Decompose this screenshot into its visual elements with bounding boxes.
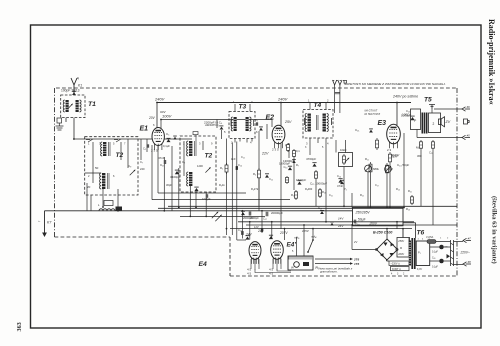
svg-text:2V: 2V xyxy=(353,240,357,244)
wire riser x158 below E1 xyxy=(157,146,159,193)
svg-text:E4′: E4′ xyxy=(287,242,297,249)
svg-text:⌙: ⌙ xyxy=(38,219,41,223)
coil box T2 dashed xyxy=(85,137,138,195)
svg-text:M₁: M₁ xyxy=(416,146,420,150)
svg-text:R₁₂: R₁₂ xyxy=(360,193,364,197)
wire E2 screen link xyxy=(271,120,273,128)
voltage selector xyxy=(451,240,454,266)
T4 top leads xyxy=(310,103,326,110)
svg-text:90V: 90V xyxy=(160,110,166,114)
svg-text:0,1μF: 0,1μF xyxy=(432,267,439,269)
T1 primary winding xyxy=(66,100,69,112)
ground hatch below R1 xyxy=(56,126,64,130)
wire riser x152 xyxy=(151,145,153,200)
T1 secondary winding xyxy=(76,100,79,112)
svg-text:240V: 240V xyxy=(277,97,288,102)
svg-text:Radio-prijemnik »Iskra«: Radio-prijemnik »Iskra« xyxy=(487,19,496,105)
wire bus y221 xyxy=(238,221,414,223)
svg-text:C₂: C₂ xyxy=(143,147,146,151)
svg-text:#6: #6 xyxy=(467,105,471,109)
T3 right winding xyxy=(246,117,249,131)
wire E3 anode to T5 xyxy=(396,103,398,126)
connector K7 mains xyxy=(463,236,471,242)
potentiometer P3 xyxy=(385,166,392,173)
resistor under T5 b xyxy=(432,140,435,150)
wire x236 riser xyxy=(236,142,238,234)
resistor R9 xyxy=(315,170,318,180)
svg-text:100pF 30/13: 100pF 30/13 xyxy=(61,89,80,93)
wire T2 lower row xyxy=(85,172,101,174)
bridge rectifier B250 C100 xyxy=(377,239,398,260)
svg-text:E2: E2 xyxy=(266,115,275,122)
mains label box 2 xyxy=(391,267,410,271)
capacitor above E4b xyxy=(261,228,262,232)
wire riser x294 xyxy=(293,158,295,190)
svg-text:12V: 12V xyxy=(254,225,259,229)
svg-text:AM/FM½C₃: AM/FM½C₃ xyxy=(204,123,220,127)
wire bus y228 xyxy=(230,228,412,230)
fuse V1 xyxy=(427,240,436,244)
switch lever xyxy=(308,240,313,252)
wire riser x259b xyxy=(258,180,260,206)
svg-text:C₁₅ 10000pF: C₁₅ 10000pF xyxy=(310,182,327,186)
svg-text:250/285V: 250/285V xyxy=(355,211,371,215)
wire riser x387mid xyxy=(386,175,388,208)
mains label box 1 xyxy=(389,261,409,265)
connector K5 xyxy=(462,133,470,139)
wire T2' riser xyxy=(195,192,197,208)
svg-text:R₁₆: R₁₆ xyxy=(322,190,326,194)
svg-text:E1: E1 xyxy=(140,126,149,133)
wire E4 grid link xyxy=(237,239,246,241)
capacitor 100pF osc xyxy=(206,194,207,198)
wire C18 box out right xyxy=(403,222,416,224)
rectifier output box xyxy=(397,238,409,258)
svg-text:0,1μF: 0,1μF xyxy=(163,144,170,148)
svg-text:C₁₇: C₁₇ xyxy=(263,217,267,221)
svg-text:1000pF: 1000pF xyxy=(401,114,411,118)
svg-text:C₁₉: C₁₉ xyxy=(318,206,322,210)
wire riser x397 bottom xyxy=(396,222,398,229)
svg-text:20V: 20V xyxy=(148,116,156,120)
wire riser x271 xyxy=(271,222,273,239)
svg-text:C₂₄ 50pF: C₂₄ 50pF xyxy=(397,163,409,167)
capacitor at x289 xyxy=(292,160,296,163)
ferrite blob xyxy=(116,207,123,212)
wire x206 riser xyxy=(205,192,207,216)
svg-text:50μF: 50μF xyxy=(358,218,366,222)
inductor L1 on bus xyxy=(99,209,115,211)
svg-text:0,1μF: 0,1μF xyxy=(432,252,439,254)
svg-text:1200: 1200 xyxy=(197,164,203,168)
resistor R5 mid xyxy=(225,163,228,174)
trimmer gang arrows on bus xyxy=(212,212,218,218)
resistor R12 xyxy=(386,163,389,175)
connector K6 xyxy=(462,105,470,111)
band switch contact right xyxy=(114,139,121,142)
svg-text:R₁₅: R₁₅ xyxy=(408,189,412,193)
wire T2 internal links xyxy=(93,139,128,183)
wire riser x345 top xyxy=(345,140,347,153)
capacitor C18 bars xyxy=(354,220,356,224)
svg-text:C₁₀: C₁₀ xyxy=(284,165,288,169)
svg-text:240V: 240V xyxy=(154,97,165,102)
wire riser x352 xyxy=(351,193,353,208)
wire E4 cathodes to box xyxy=(255,269,291,273)
tube E1 xyxy=(152,128,164,151)
wire riser x147 xyxy=(146,139,148,152)
svg-text:220V~: 220V~ xyxy=(460,251,470,255)
svg-text:207V: 207V xyxy=(279,231,288,235)
IF transformer T4 box xyxy=(303,110,333,139)
svg-text:ZV: ZV xyxy=(445,120,451,124)
wire riser x404 xyxy=(403,133,405,208)
chassis boundary dashed step xyxy=(229,237,231,276)
wire riser x221 xyxy=(221,130,223,139)
wire E4a leads xyxy=(251,259,259,270)
T4 right winding xyxy=(323,114,326,132)
svg-text:2 3: 2 3 xyxy=(387,148,392,152)
resistor R7 xyxy=(293,149,296,158)
svg-text:mk₄: mk₄ xyxy=(311,235,317,239)
tube E2 xyxy=(272,125,285,148)
svg-text:680k: 680k xyxy=(373,167,379,171)
capacitor C14 xyxy=(236,166,237,170)
capacitor C2 at E1 grid xyxy=(147,144,148,147)
svg-text:R₃1k: R₃1k xyxy=(219,183,225,187)
T4 side caps xyxy=(305,118,332,125)
svg-text:24V: 24V xyxy=(337,224,344,228)
wire 240V anode bus xyxy=(157,102,411,104)
svg-text:115V: 115V xyxy=(302,229,310,233)
T2 upper winding core xyxy=(108,142,110,156)
svg-text:C₂₆: C₂₆ xyxy=(432,258,436,260)
resistor R6 under E2 xyxy=(287,143,290,152)
wire grid bus extension xyxy=(164,138,192,140)
dipole feeder wires xyxy=(335,85,340,113)
earth arrow K7 xyxy=(42,218,47,237)
trimmer in T2' xyxy=(205,167,210,172)
wire speaker return xyxy=(417,137,462,139)
capacitor C12 xyxy=(265,174,269,178)
antenna A xyxy=(71,78,77,95)
wire x226 riser xyxy=(226,139,228,236)
wire bridge left xyxy=(352,249,377,251)
svg-text:C₁₂: C₁₂ xyxy=(241,155,245,159)
grid caps at E4 xyxy=(245,236,249,240)
svg-text:1T6: 1T6 xyxy=(354,262,360,266)
svg-text:B-250 C100: B-250 C100 xyxy=(373,231,392,235)
svg-text:C₇: C₇ xyxy=(140,160,143,164)
wire bridge right to T6 xyxy=(396,249,399,251)
svg-text:T4: T4 xyxy=(314,102,322,109)
wire long AVC bus xyxy=(45,210,353,212)
svg-text:mk₅: mk₅ xyxy=(294,236,300,240)
capacitor C19 xyxy=(320,210,324,214)
T6 primary winding xyxy=(409,241,411,266)
svg-text:C₂₂: C₂₂ xyxy=(429,151,433,155)
wire bridge top riser xyxy=(386,229,388,239)
svg-text:4 5: 4 5 xyxy=(269,272,274,276)
svg-text:#5: #5 xyxy=(467,133,471,137)
resistor under T5 xyxy=(420,140,423,150)
capacitor C5 at E1 xyxy=(167,138,171,142)
svg-text:10000pF: 10000pF xyxy=(279,162,290,166)
wire riser x313 switch xyxy=(312,229,314,240)
svg-text:200V: 200V xyxy=(369,222,378,226)
resistor R4 mid xyxy=(258,168,261,180)
connector K8 mains xyxy=(463,260,471,266)
wire bus y208 xyxy=(158,207,403,209)
wire bus y193 xyxy=(158,192,246,194)
wire riser x326 xyxy=(325,142,327,222)
wire input bus to E1 xyxy=(73,138,152,140)
wire riser x336 volume xyxy=(335,140,337,153)
wire riser x262 xyxy=(261,211,263,233)
wire riser x249 xyxy=(249,222,251,240)
T3 trim caps xyxy=(231,120,254,126)
wire x232 riser xyxy=(231,143,233,236)
wire T2 riser x91 xyxy=(90,195,92,211)
arrow mark on P2 xyxy=(365,166,371,172)
svg-text:P₁: P₁ xyxy=(418,251,421,255)
svg-text:R₁₄: R₁₄ xyxy=(396,187,400,191)
arrow to 2T6 xyxy=(315,258,350,260)
arrow mark on P3 xyxy=(385,166,391,172)
svg-text:6,3V: 6,3V xyxy=(417,268,422,271)
svg-text:R₄: R₄ xyxy=(253,172,256,176)
T1 tuning arrows xyxy=(68,104,72,108)
indicator lamp 1 xyxy=(439,245,444,250)
wire T3 top leads xyxy=(235,104,250,112)
svg-text:2 3 5: 2 3 5 xyxy=(272,148,279,152)
wire riser x421 xyxy=(420,150,422,206)
chassis boundary dashed bottom right xyxy=(230,275,457,277)
wire 100V drop to E1 xyxy=(160,120,162,129)
svg-text:R₁₀: R₁₀ xyxy=(291,193,295,197)
svg-text:C₁₇: C₁₇ xyxy=(375,183,379,187)
dipole crossbar xyxy=(335,93,340,94)
svg-text:C₂₃: C₂₃ xyxy=(406,109,410,113)
svg-text:E4: E4 xyxy=(199,261,208,268)
T4 core lines xyxy=(316,115,318,130)
T5 core xyxy=(422,113,428,134)
capacitor C17 20000uF xyxy=(266,212,268,217)
svg-text:0,1: 0,1 xyxy=(296,149,300,153)
wire riser x242 xyxy=(241,211,243,239)
wire x178 riser xyxy=(178,168,180,208)
wire bus y225 xyxy=(246,224,457,226)
svg-text:110V: 110V xyxy=(391,154,400,158)
wire riser x259 xyxy=(258,131,260,211)
T6 core xyxy=(411,238,413,269)
svg-text:DI TECH NTZ: DI TECH NTZ xyxy=(365,113,381,116)
capacitor 3400pF xyxy=(175,170,179,174)
svg-text:4700pF: 4700pF xyxy=(306,157,316,161)
wire T2' links xyxy=(184,141,203,176)
svg-text:363: 363 xyxy=(16,322,23,331)
diode mark right xyxy=(447,254,451,259)
resistor R8 xyxy=(286,176,289,184)
wire selector links xyxy=(430,242,463,265)
svg-text:M: M xyxy=(400,247,402,250)
bridge vertex circles xyxy=(375,248,377,250)
svg-text:2: 2 xyxy=(433,122,435,126)
FM dipole antenna xyxy=(333,80,343,85)
wire bridge bottom xyxy=(386,259,388,261)
chassis boundary dashed bottom left xyxy=(55,236,231,238)
T3 left winding xyxy=(234,117,237,131)
resistor bleeder xyxy=(411,195,414,205)
svg-text:R₁₁: R₁₁ xyxy=(365,157,369,161)
wire riser x236 to E4 xyxy=(236,233,238,240)
page frame border xyxy=(31,25,482,328)
svg-text:T5: T5 xyxy=(424,97,432,104)
svg-text:V₁Q5A: V₁Q5A xyxy=(426,236,434,239)
svg-text:R₁₃: R₁₃ xyxy=(406,207,410,211)
capacitor below T2' winding xyxy=(194,187,198,191)
trimmer C9 xyxy=(130,170,136,176)
wire T2 riser x87 xyxy=(86,183,88,211)
arrow to 1T6 xyxy=(315,263,350,265)
svg-text:T1: T1 xyxy=(88,101,96,108)
svg-text:E3: E3 xyxy=(378,120,387,127)
svg-text:W: W xyxy=(291,266,294,270)
svg-text:1500pF: 1500pF xyxy=(296,178,306,182)
dipole mark xyxy=(344,81,347,84)
T4 left winding xyxy=(308,114,311,132)
wire riser x289 top xyxy=(288,143,290,158)
svg-text:K1: K1 xyxy=(78,84,82,88)
svg-text:C₁₆: C₁₆ xyxy=(337,174,341,178)
wire riser x310 xyxy=(309,142,311,155)
wire riser x345 xyxy=(343,167,345,207)
indicator lamp 2 xyxy=(439,259,444,264)
IF transformer T3 box xyxy=(229,112,255,139)
component box above L1 xyxy=(104,201,113,206)
transformer T1 box xyxy=(61,95,85,118)
wire riser x190 xyxy=(189,186,191,216)
capacitor C13 47nF xyxy=(164,160,165,164)
svg-text:R₄27k: R₄27k xyxy=(251,187,259,191)
wire riser x281 down xyxy=(280,144,282,229)
capacitor 4700pF xyxy=(312,163,316,167)
wire riser x433 xyxy=(432,150,434,225)
svg-text:20000μF: 20000μF xyxy=(271,211,283,215)
resistor R E3 cathode xyxy=(389,152,392,164)
wire riser x284 xyxy=(284,229,286,240)
small resistor above osc xyxy=(193,132,198,135)
svg-text:240: 240 xyxy=(140,167,145,171)
T2 upper winding xyxy=(103,142,106,156)
wire riser x296 switch xyxy=(296,237,298,256)
wire T5 to connector 6 xyxy=(434,108,462,110)
svg-text:200V: 200V xyxy=(397,253,404,256)
svg-text:2T6: 2T6 xyxy=(353,258,360,262)
capacitor 2000pF left xyxy=(249,212,251,216)
chassis boundary dash-dot left xyxy=(54,88,56,237)
capacitor 2200pF xyxy=(220,126,224,130)
tube E3 xyxy=(387,124,401,148)
svg-text:250V: 250V xyxy=(397,240,404,243)
T5 secondary box xyxy=(429,113,441,133)
wire rect box top xyxy=(409,237,411,241)
T3 pin leads xyxy=(235,139,252,143)
svg-text:T2: T2 xyxy=(116,152,124,159)
wire E1 anode riser xyxy=(156,103,158,129)
svg-text:P₂: P₂ xyxy=(344,187,347,191)
svg-text:#7: #7 xyxy=(468,236,472,240)
svg-text:C₂₀: C₂₀ xyxy=(238,228,242,232)
svg-text:gramofonom.: gramofonom. xyxy=(320,270,338,274)
T2 lower winding core xyxy=(107,173,109,189)
T4 bottom leads xyxy=(310,138,326,143)
wire bus y216 xyxy=(180,215,265,217)
svg-text:R₉300: R₉300 xyxy=(305,187,313,191)
wire T1 to tuner xyxy=(73,118,75,139)
T5 primary box xyxy=(411,109,421,130)
wire x164 riser xyxy=(163,157,165,211)
volume potentiometer box xyxy=(339,153,353,167)
wire riser x141 xyxy=(140,139,142,160)
terminal box P xyxy=(288,256,313,270)
wire riser x304 xyxy=(303,225,305,256)
wire bus y206 xyxy=(168,205,457,207)
wire E4b leads xyxy=(273,259,281,270)
capacitor C6 at E1 xyxy=(173,136,177,139)
svg-text:A: A xyxy=(76,77,80,81)
svg-text:C₀: C₀ xyxy=(255,118,258,122)
svg-text:4 5: 4 5 xyxy=(247,272,252,276)
svg-text:T3: T3 xyxy=(239,104,247,111)
svg-text:C₈: C₈ xyxy=(182,160,185,164)
phone jack symbol xyxy=(464,119,470,124)
wire bus y199 xyxy=(152,199,290,201)
svg-text:22V: 22V xyxy=(261,152,269,156)
capacitor 3000pF xyxy=(241,211,245,215)
wire 100V screen bus xyxy=(161,119,272,121)
svg-text:1nF: 1nF xyxy=(231,157,236,161)
capacitor C16b 47nF xyxy=(340,180,344,184)
capacitor C21 near E3 xyxy=(369,129,373,133)
svg-text:240V po s/dirne: 240V po s/dirne xyxy=(392,95,418,99)
svg-text:30pF: 30pF xyxy=(166,183,172,187)
wire riser x368 pot xyxy=(367,172,369,208)
svg-text:T2: T2 xyxy=(205,153,213,160)
wire osc top lead xyxy=(195,135,197,141)
svg-text:2000pF: 2000pF xyxy=(250,216,259,220)
svg-text:R₅: R₅ xyxy=(220,166,223,170)
svg-text:#8: #8 xyxy=(468,260,472,264)
svg-text:NAPETOSTI SO MERJENE Z INS: NAPETOSTI SO MERJENE Z INSTRUMENTOM 10 0… xyxy=(344,82,446,86)
capacitor C11 xyxy=(297,181,301,185)
svg-text:100V: 100V xyxy=(162,114,172,119)
capacitor C16 xyxy=(338,179,342,183)
svg-text:47nF: 47nF xyxy=(337,184,343,188)
svg-text:360: 360 xyxy=(417,154,422,158)
wire to earth K7 xyxy=(44,211,46,218)
capacitor above E4a xyxy=(242,231,243,235)
capacitor C10 xyxy=(288,166,292,170)
wire riser x267 xyxy=(266,124,268,139)
T2' lower winding xyxy=(189,172,192,186)
wire E2 anode riser xyxy=(280,103,282,127)
resistor R10 xyxy=(295,190,298,200)
svg-text:50: 50 xyxy=(95,166,99,170)
wire riser x370 xyxy=(370,174,372,208)
wire riser x217 xyxy=(216,120,218,129)
svg-text:20: 20 xyxy=(87,185,91,189)
